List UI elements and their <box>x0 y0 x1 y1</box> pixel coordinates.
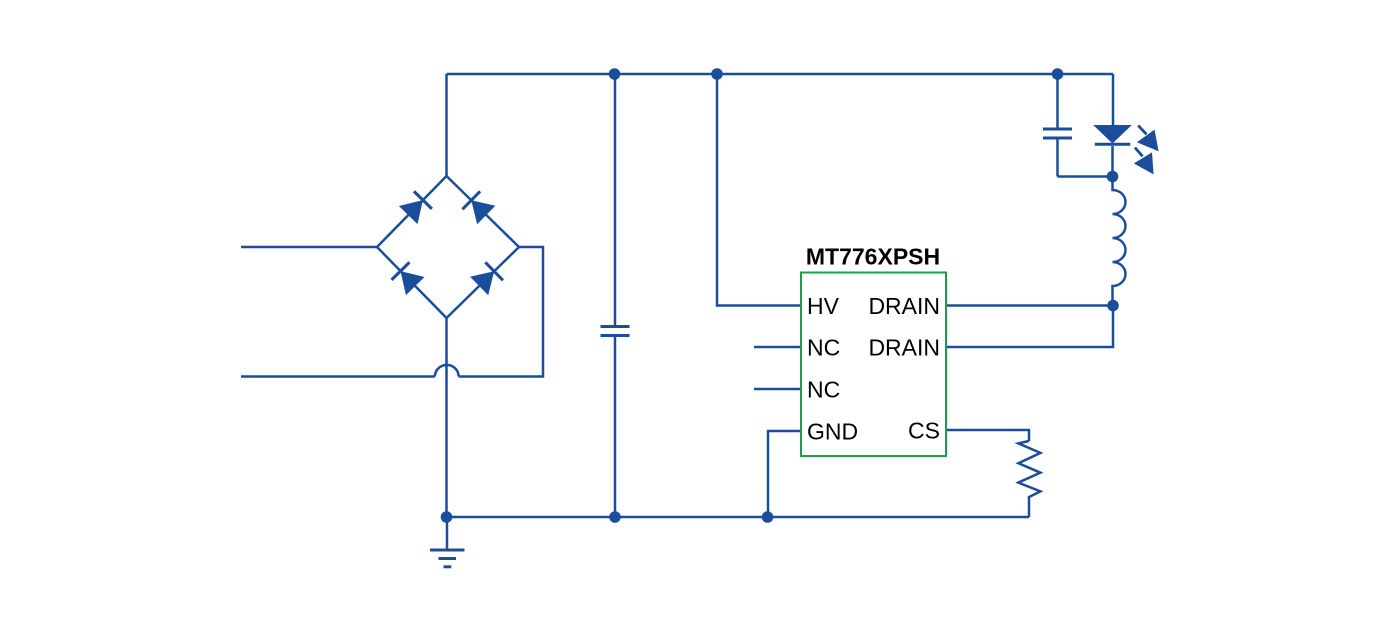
wire: NC pin stub 1 <box>754 346 801 349</box>
junction dot: bottom rail / bulk cap <box>609 511 621 523</box>
svg-text:DRAIN: DRAIN <box>868 293 940 319</box>
LED light arrow 1 <box>1137 126 1159 152</box>
svg-text:MT776XPSH: MT776XPSH <box>806 244 940 270</box>
wire: AC input line 2 right portion up to bridge right vertex <box>459 247 543 377</box>
capacitor C1 (bulk, middle) <box>601 74 630 517</box>
wire: bridge bottom vertex down to ground rail <box>445 318 448 517</box>
wire: hop over vertical wire <box>435 365 459 377</box>
wire: top rail <box>447 73 1114 76</box>
diode D3 (lower-left of bridge) <box>391 262 424 295</box>
junction dot: bottom rail / GND branch <box>762 511 774 523</box>
junction dot: top rail / HV branch <box>711 68 723 80</box>
wire: GND pin to bottom rail <box>768 431 801 517</box>
wire: NC pin stub 2 <box>754 388 801 391</box>
ground symbol <box>430 517 465 567</box>
svg-text:NC: NC <box>807 377 840 403</box>
wire: CS pin to resistor <box>946 430 1029 441</box>
svg-text:DRAIN: DRAIN <box>868 335 940 361</box>
wire: bottom ground rail <box>447 516 1030 519</box>
junction dot: bottom rail / bridge <box>441 511 453 523</box>
wire: DRAIN pin 1 to inductor bottom <box>946 304 1113 307</box>
svg-text:CS: CS <box>908 418 940 444</box>
junction dot: LED cathode / snubber / inductor top <box>1107 171 1119 183</box>
junction dot: top rail / bulk cap <box>609 68 621 80</box>
wire: HV branch from top rail to HV pin <box>717 74 801 306</box>
wire: DRAIN pin 2 <box>946 306 1113 348</box>
LED D5 <box>1093 74 1132 177</box>
LED light arrow 2 <box>1134 148 1154 175</box>
wire: AC input line 1 (left, to bridge left vertex) <box>241 246 377 249</box>
inductor L1 <box>1113 177 1126 306</box>
diode D1 (upper-left of bridge) <box>399 191 432 224</box>
capacitor C2 (snubber, top right) <box>1043 74 1113 177</box>
wire: bridge top vertex to top rail <box>445 74 448 176</box>
svg-text:HV: HV <box>807 293 840 319</box>
junction dot: top rail / snubber cap <box>1052 68 1064 80</box>
svg-text:NC: NC <box>807 335 840 361</box>
diode D4 (lower-right of bridge) <box>470 262 503 295</box>
diode D2 (upper-right of bridge) <box>462 191 495 224</box>
svg-text:GND: GND <box>807 419 858 445</box>
IC U1 box <box>801 273 946 457</box>
junction dot: inductor bottom / drain wires <box>1107 300 1119 312</box>
wire: AC input line 2 left portion <box>241 375 435 378</box>
diode bridge BR1 diamond outline <box>377 176 519 318</box>
resistor R1 (current sense) <box>1018 441 1040 517</box>
